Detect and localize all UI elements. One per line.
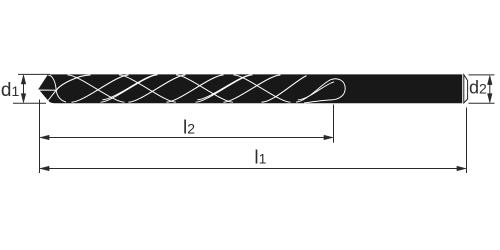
extension line left (l1/l2) [39,100,41,174]
d1 bottom extension tick [13,102,46,104]
svg-text:l2: l2 [183,118,195,139]
flute back edge (descending) [234,75,291,102]
extension line l1 end [466,108,468,174]
svg-text:l1: l1 [254,147,266,168]
shank end chamfer face [464,75,468,103]
d2 dimension arrow [488,76,493,103]
svg-text:d1: d1 [1,80,20,101]
flute land edge (rising) [224,75,281,102]
tip flute edge curve [48,75,66,102]
extension line l2 end [333,105,335,143]
flute back edge (descending) [68,75,125,102]
flute land edge (rising) [129,75,186,102]
d1 dimension arrow [21,75,26,103]
flute land edge from point [56,75,90,90]
l2 dimension line [40,135,333,140]
drill body silhouette [38,74,462,103]
flute margin pair (rising) [196,75,253,103]
flute back edge (descending) [176,75,233,102]
flute land edge (rising) [72,75,129,102]
l1 dimension line [40,166,466,171]
flute runout lobe [304,79,345,103]
d2 top extension tick [469,74,495,76]
flute land edge (rising) [167,75,224,102]
d1 top extension tick [18,73,50,75]
d2 bottom extension tick [469,102,495,104]
flute margin pair (rising) [101,75,158,103]
svg-text:d2: d2 [469,77,487,97]
tip flank triangle [39,90,57,101]
flute back edge (descending) [119,75,176,102]
flute land edge (rising, before runout) [262,76,307,103]
flute margin into runout [296,80,334,103]
